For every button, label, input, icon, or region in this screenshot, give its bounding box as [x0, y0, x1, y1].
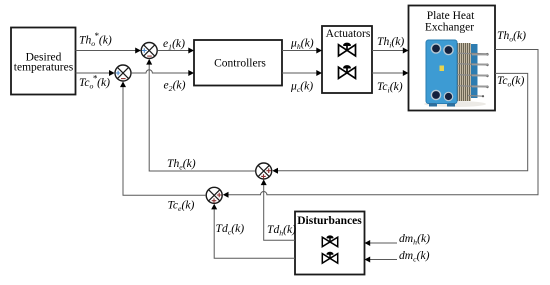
wire: S1 to Controllers (e1): [158, 48, 195, 54]
wire: S2 to Controllers (e2) with hop: [131, 70, 194, 76]
wire: Controllers to Actuators (mu_c): [282, 70, 322, 76]
plate heat exchanger illustration: [424, 41, 489, 107]
summing junction S4 (Tc_e): [206, 187, 222, 203]
wire: Disturbances Td_c to S4: [211, 204, 295, 259]
wire: desired Th to S1: [76, 48, 141, 54]
wire: dm_h into Disturbances: [365, 240, 398, 246]
block: Disturbances: [295, 212, 365, 275]
valve V3 (hot disturbance): [322, 236, 337, 247]
svg-text:μh(k): μh(k): [290, 37, 314, 52]
wire: Actuators to PHE (Tc_i): [372, 70, 409, 76]
svg-text:Plate Heat: Plate Heat: [427, 10, 475, 22]
valve V2 (cold actuator): [339, 66, 356, 78]
svg-text:Actuators: Actuators: [326, 28, 371, 40]
svg-text:Tci(k): Tci(k): [377, 80, 403, 95]
wire: desired Tc to S2: [76, 70, 115, 76]
summing junction S1 (e1): [141, 43, 157, 59]
wire: S4 output Tc_e up to S2: [120, 81, 206, 195]
valve V4 (cold disturbance): [322, 253, 337, 264]
wire: Actuators to PHE (Th_i): [372, 48, 409, 54]
valve V1 (hot actuator): [339, 43, 356, 55]
wire: Controllers to Actuators (mu_h): [282, 48, 322, 54]
svg-text:Thi(k): Thi(k): [377, 35, 404, 50]
wire: dm_c into Disturbances: [365, 257, 398, 263]
svg-text:Controllers: Controllers: [214, 58, 266, 70]
wire: S3 output Th_e up to S1: [146, 59, 255, 171]
wire: PHE Th_o feedback to S4 with hop: [223, 50, 538, 198]
summing junction S2 (e2): [115, 65, 131, 81]
svg-text:Exchanger: Exchanger: [425, 22, 474, 34]
block: Plate Heat Exchanger: [409, 6, 496, 111]
svg-text:μc(k): μc(k): [290, 80, 313, 95]
svg-text:e1(k): e1(k): [163, 37, 185, 52]
summing junction S3 (Th_e): [256, 163, 272, 179]
svg-text:Tce(k): Tce(k): [168, 199, 195, 214]
block: Desired temperatures: [11, 28, 76, 95]
wire: Disturbances Td_h to S3: [261, 179, 295, 240]
svg-text:temperatures: temperatures: [14, 62, 74, 74]
svg-text:Tco(k): Tco(k): [497, 74, 524, 89]
block: Controllers: [194, 40, 282, 86]
wire: PHE Tc_o feedback to S3: [272, 73, 527, 173]
block: Actuators: [322, 26, 372, 93]
svg-text:e2(k): e2(k): [164, 79, 186, 94]
svg-text:Disturbances: Disturbances: [297, 215, 362, 227]
